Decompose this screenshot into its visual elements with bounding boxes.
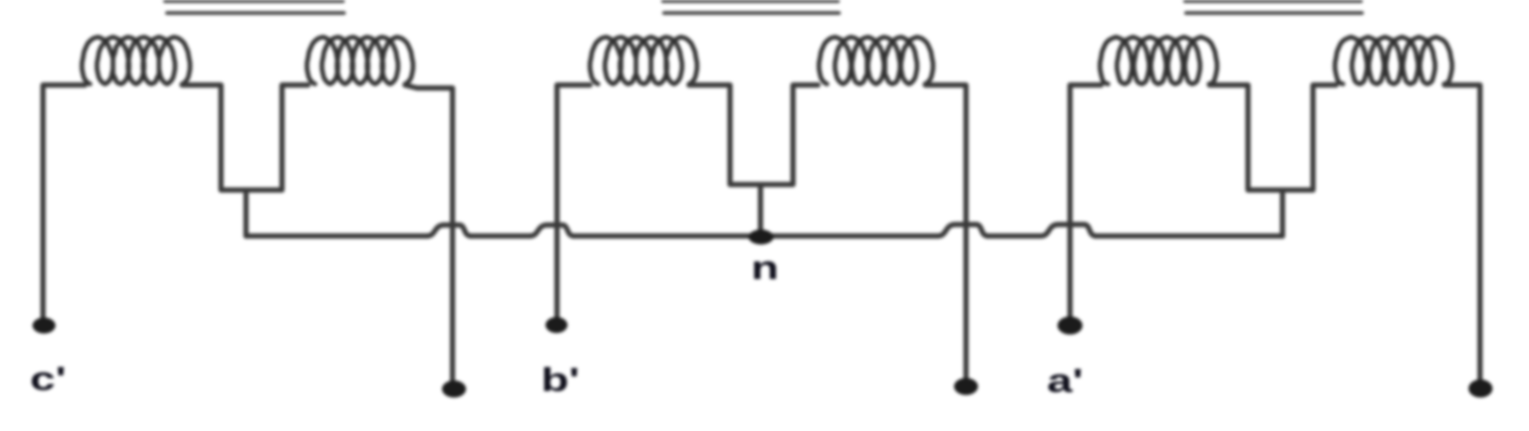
svg-text:c': c' — [30, 361, 66, 398]
svg-text:n: n — [751, 250, 779, 287]
svg-text:a': a' — [1047, 363, 1083, 400]
svg-text:b': b' — [541, 362, 580, 399]
